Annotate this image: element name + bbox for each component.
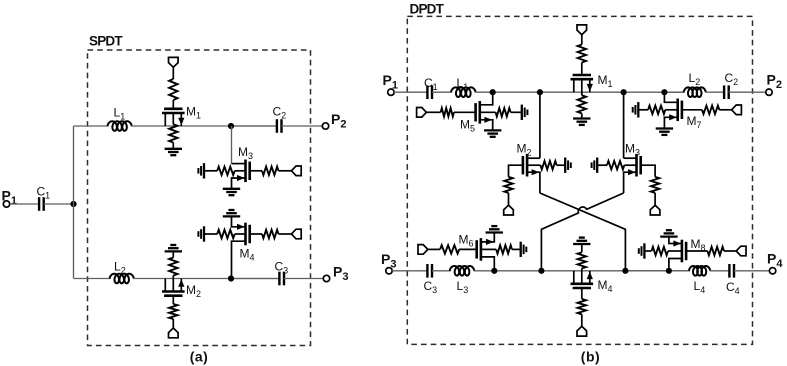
- port P3 (SPDT): [323, 275, 329, 281]
- M1 body resistor: [578, 95, 586, 113]
- svg-text:M1: M1: [186, 105, 201, 121]
- M7 body wire to ground: [638, 109, 648, 111]
- wire vertical splitter: [73, 126, 75, 279]
- M5 source arrow: [484, 117, 492, 123]
- port P4 (DPDT): [769, 268, 775, 274]
- control pad below M4 (DPDT): [577, 326, 587, 336]
- transistor M4 (DPDT) series FET: [571, 282, 594, 285]
- svg-text:M7: M7: [687, 114, 702, 130]
- M3 gate lead: [250, 170, 262, 172]
- control pad left of M6: [418, 245, 428, 255]
- M7 body resistor: [648, 106, 665, 114]
- M6 source stub: [481, 233, 494, 242]
- transistor M3 (SPDT) shunt FET: [244, 160, 247, 183]
- SPDT dashed enclosure box: [88, 50, 311, 346]
- transistor M6 (DPDT) shunt FET: [480, 238, 483, 261]
- wire C2 to P2: [282, 125, 323, 127]
- M2 source arrow: [532, 169, 540, 175]
- M8 body wire to ground: [644, 250, 651, 252]
- svg-text:M3: M3: [238, 145, 253, 161]
- M6 gate lead: [459, 248, 477, 250]
- sideways ground right of M5: [521, 105, 523, 120]
- wire L2 to M2: [133, 278, 279, 280]
- inductor L1 (SPDT): [108, 121, 132, 131]
- capacitor C3 (SPDT): [278, 272, 280, 286]
- svg-text:P3: P3: [333, 264, 348, 284]
- control pad right of M3: [291, 166, 301, 176]
- inductor L2 (SPDT): [110, 274, 134, 284]
- control pad above M1: [169, 57, 179, 67]
- M4 gate wire to pad: [581, 314, 583, 326]
- M3 gate wire to pad: [654, 193, 656, 205]
- svg-text:M4: M4: [240, 247, 255, 263]
- M1 body wire to ground: [172, 143, 174, 149]
- svg-text:C1: C1: [37, 185, 51, 201]
- svg-text:C4: C4: [726, 280, 740, 296]
- M1 body lead: [172, 113, 174, 124]
- port P2 (DPDT): [766, 89, 772, 95]
- ground below M5: [484, 129, 501, 131]
- wire M1 to L2 (continues): [664, 91, 684, 93]
- M6 body wire to ground: [512, 248, 521, 250]
- M5 gate lead: [454, 111, 476, 113]
- ground above M4: [223, 215, 240, 217]
- wire P1 to C1: [10, 203, 39, 205]
- M2 gate lead: [509, 165, 523, 177]
- sideways ground left of M7: [637, 102, 639, 117]
- cross wire M2 source to right node: [540, 193, 626, 271]
- M2 body wire to ground: [172, 251, 174, 257]
- M5 source stub: [480, 120, 493, 131]
- M4 drain stub: [232, 241, 246, 278]
- wire P1 to C1: [394, 91, 427, 93]
- wire M2 to node (continues): [231, 278, 279, 280]
- node junction M3 drain: [621, 89, 627, 95]
- M5 body lead: [480, 111, 496, 113]
- node junction cross right: [622, 268, 628, 274]
- transistor M8 (DPDT) shunt FET: [681, 240, 684, 263]
- port P1 (DPDT): [388, 89, 394, 95]
- M2 body resistor: [541, 161, 557, 169]
- M3 source stub: [232, 178, 246, 189]
- M2 body resistor: [169, 258, 177, 276]
- M7 gate lead: [682, 109, 702, 111]
- wire C2 to P2: [729, 91, 766, 93]
- wire L2 to C2: [705, 91, 724, 93]
- M1 body lead: [581, 79, 583, 95]
- M7 body lead: [665, 109, 677, 111]
- M2 body lead: [527, 164, 540, 166]
- M8 body resistor: [652, 247, 669, 255]
- inductor L2 (DPDT): [684, 87, 706, 97]
- transistor M5 (DPDT) shunt FET: [478, 101, 481, 124]
- node junction cross left: [538, 268, 544, 274]
- M3 body lead: [624, 164, 636, 166]
- M3 body lead: [235, 170, 246, 172]
- capacitor C1 (DPDT): [426, 85, 428, 99]
- wire node down to M3 drain: [623, 92, 625, 158]
- inductor L4 (DPDT): [689, 266, 710, 276]
- transistor M1 (DPDT) series FET: [571, 78, 594, 81]
- wire L1 to M1: [131, 125, 277, 127]
- node junction M5 drain: [490, 89, 496, 95]
- control pad right of M8: [736, 246, 746, 256]
- sideways ground left of M4: [203, 226, 205, 241]
- wire node down to M3: [231, 126, 233, 164]
- M1 gate resistor: [169, 79, 177, 100]
- wire M1 to node (continues): [231, 125, 277, 127]
- port P3 (DPDT): [386, 268, 392, 274]
- M1 gate wire to pad: [172, 67, 174, 79]
- wire C1 to L1: [432, 91, 452, 93]
- M1 gate resistor: [578, 45, 586, 63]
- control pad above M1 (DPDT): [577, 25, 587, 35]
- svg-text:DPDT: DPDT: [410, 1, 445, 16]
- M4 gate resistor: [262, 230, 279, 238]
- M4 body resistor: [217, 230, 235, 238]
- ground below M7: [656, 127, 673, 129]
- M8 source arrow: [673, 240, 681, 246]
- control pad below M2 (DPDT): [504, 205, 514, 215]
- node junction top branch: [228, 123, 234, 129]
- wire node down to M2 drain: [539, 92, 541, 158]
- svg-text:SPDT: SPDT: [89, 33, 123, 48]
- M1 body wire to ground: [581, 113, 583, 118]
- svg-text:C3: C3: [424, 279, 438, 295]
- M4 source arrow: [237, 224, 245, 230]
- wire P3 to C3: [392, 270, 427, 272]
- control pad right of M4: [291, 229, 301, 239]
- capacitor C1 (SPDT): [38, 197, 40, 211]
- control pad below M2: [169, 328, 179, 338]
- capacitor C4 (DPDT): [728, 264, 730, 278]
- wire C4 to P4: [734, 270, 769, 272]
- M3 source arrow: [628, 169, 636, 175]
- svg-text:M4: M4: [598, 278, 613, 294]
- port P1 (SPDT): [3, 201, 9, 207]
- svg-text:M6: M6: [459, 233, 474, 249]
- svg-text:(b): (b): [581, 348, 600, 364]
- M6 body lead: [481, 248, 496, 250]
- M6 gate resistor: [440, 245, 459, 253]
- M8 gate wire to pad: [724, 250, 736, 252]
- M3 source stub: [624, 172, 637, 193]
- transistor M1 (SPDT) series FET: [162, 112, 185, 115]
- node junction M2 drain: [537, 89, 543, 95]
- M4 body wire to ground: [581, 244, 583, 252]
- M6 gate wire to pad: [428, 248, 440, 250]
- wire L3 to M4: [474, 270, 690, 272]
- svg-text:L1: L1: [457, 76, 469, 92]
- svg-text:(a): (a): [190, 348, 209, 364]
- M7 gate resistor: [702, 106, 719, 114]
- svg-text:P4: P4: [767, 251, 783, 271]
- svg-text:L1: L1: [114, 106, 126, 122]
- M3 gate lead: [641, 165, 655, 177]
- svg-text:L4: L4: [694, 279, 706, 295]
- M6 body resistor: [496, 245, 512, 253]
- inductor L3 (DPDT): [450, 266, 475, 276]
- M2 gate wire to pad: [172, 319, 174, 328]
- sideways ground right of M2: [564, 158, 566, 173]
- M5 body resistor: [496, 108, 511, 116]
- svg-text:M3: M3: [625, 142, 640, 158]
- M3 drain stub: [232, 163, 246, 165]
- sideways ground right of M6: [520, 242, 522, 257]
- M4 gate lead: [250, 233, 262, 235]
- M4 body wire to ground: [204, 233, 217, 235]
- ground below M3: [223, 188, 240, 190]
- svg-text:M2: M2: [517, 142, 532, 158]
- control pad right of M7: [732, 105, 742, 115]
- capacitor C2 (DPDT): [723, 85, 725, 99]
- M4 gate wire to pad: [279, 233, 292, 235]
- M5 gate resistor: [441, 108, 454, 116]
- M1 gate wire to pad: [581, 35, 583, 45]
- M7 drain stub: [664, 92, 677, 102]
- M2 body lead: [172, 276, 174, 292]
- M3 body wire to ground: [597, 164, 607, 166]
- M8 gate lead: [686, 250, 707, 252]
- DPDT dashed enclosure box: [407, 16, 752, 344]
- wire L1 to M1: [475, 91, 685, 93]
- control pad left of M5: [417, 108, 427, 118]
- M7 gate wire to pad: [719, 109, 731, 111]
- ground above M6: [486, 231, 503, 233]
- M1 gate lead: [172, 100, 174, 109]
- sideways ground left of M3: [203, 163, 205, 178]
- M2 source stub: [527, 172, 540, 193]
- ground above M2: [165, 250, 182, 252]
- M2 gate wire to pad: [508, 193, 510, 205]
- M3 drain stub: [624, 157, 637, 159]
- M5 gate wire to pad: [426, 111, 440, 113]
- ground above M8: [660, 235, 677, 237]
- M4 gate resistor: [578, 299, 586, 314]
- svg-text:L2: L2: [114, 260, 126, 276]
- wire C1 to node: [44, 203, 74, 205]
- svg-text:C3: C3: [275, 260, 289, 276]
- M3 body wire to ground: [204, 170, 217, 172]
- M4 body resistor: [578, 252, 586, 268]
- capacitor C3 (DPDT): [426, 264, 428, 278]
- svg-text:C2: C2: [273, 105, 287, 121]
- M3 gate resistor: [651, 177, 659, 193]
- ground below M1: [165, 148, 182, 150]
- M2 gate lead: [172, 296, 174, 304]
- svg-text:C1: C1: [424, 76, 438, 92]
- transistor M7 (DPDT) shunt FET: [676, 99, 679, 122]
- wire to L1: [74, 125, 109, 127]
- M4 gate lead: [581, 288, 583, 299]
- M3 body resistor: [607, 161, 624, 169]
- svg-text:C2: C2: [725, 71, 739, 87]
- M3 source arrow: [237, 175, 245, 181]
- M4 body lead: [581, 268, 583, 283]
- node junction at C1 split: [70, 201, 76, 207]
- M1 gate lead: [581, 63, 583, 76]
- wire to L2: [74, 278, 111, 280]
- port P2 (SPDT): [322, 123, 328, 129]
- sideways ground left of M8: [643, 243, 645, 258]
- transistor M2 (DPDT) cross FET: [526, 154, 529, 177]
- node junction bottom branch: [228, 275, 234, 281]
- M2 drain stub: [527, 157, 540, 159]
- M1 body resistor: [169, 124, 177, 142]
- M7 source arrow: [669, 114, 677, 120]
- M6 drain stub: [481, 257, 494, 271]
- M5 body wire to ground: [511, 111, 522, 113]
- inductor L1 (DPDT): [451, 87, 476, 97]
- M8 drain stub: [669, 259, 682, 271]
- capacitor C2 (SPDT): [276, 119, 278, 133]
- M4 source stub: [232, 216, 246, 226]
- M8 gate resistor: [708, 247, 725, 255]
- M7 source stub: [664, 117, 677, 128]
- wire C3 to L3: [432, 270, 451, 272]
- svg-text:M1: M1: [598, 73, 613, 89]
- M2 gate resistor: [169, 304, 177, 319]
- sideways ground left of M3: [596, 158, 598, 173]
- cross wire M3 source to left node (with hop): [541, 193, 623, 271]
- node junction M7 drain: [661, 89, 667, 95]
- M5 drain stub: [480, 92, 493, 105]
- wire C3 to P3: [284, 278, 323, 280]
- svg-text:L3: L3: [457, 279, 469, 295]
- M2 body wire to ground: [557, 164, 566, 166]
- M3 gate wire to pad: [279, 170, 292, 172]
- transistor M2 (SPDT) series FET: [162, 290, 185, 293]
- svg-text:M2: M2: [186, 283, 201, 299]
- transistor M4 (SPDT) shunt FET: [244, 223, 247, 246]
- svg-text:P2: P2: [331, 111, 346, 131]
- svg-text:M5: M5: [460, 118, 475, 134]
- M8 source stub: [669, 237, 682, 244]
- M2 gate resistor: [504, 177, 512, 193]
- node junction M8 drain: [666, 268, 672, 274]
- ground below M1 (DPDT): [573, 117, 590, 119]
- M8 body lead: [668, 250, 682, 252]
- M3 gate resistor: [262, 167, 279, 175]
- control pad below M3 (DPDT): [650, 205, 660, 215]
- svg-text:L2: L2: [689, 71, 701, 87]
- M6 source arrow: [486, 239, 494, 245]
- M3 body resistor: [217, 167, 235, 175]
- node junction M6 drain: [491, 268, 497, 274]
- M4 body lead: [235, 233, 246, 235]
- wire L4 to C4: [710, 270, 730, 272]
- wire M4 to L4 (continues): [625, 270, 690, 272]
- ground above M4 (DPDT): [573, 243, 590, 245]
- transistor M3 (DPDT) cross FET: [635, 154, 638, 177]
